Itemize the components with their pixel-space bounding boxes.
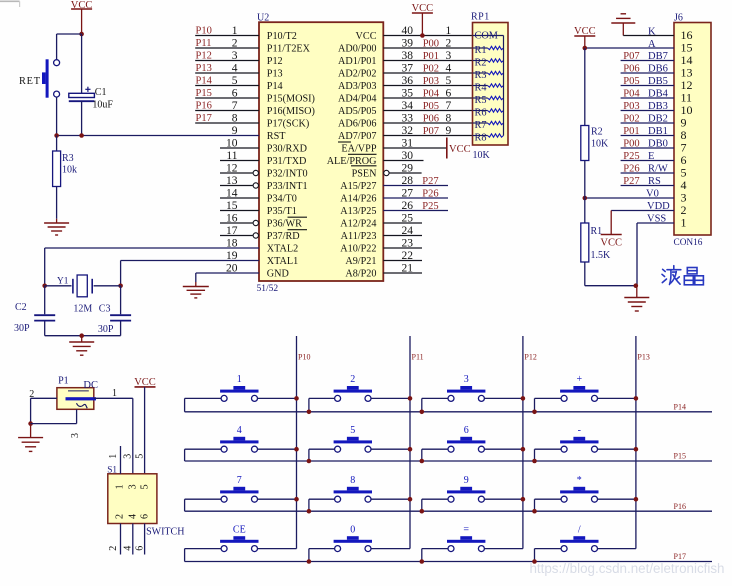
svg-text:RP1: RP1 [471, 12, 490, 23]
svg-text:10uF: 10uF [92, 99, 113, 110]
svg-text:13: 13 [681, 65, 693, 79]
svg-text:SWITCH: SWITCH [146, 526, 184, 537]
svg-text:9: 9 [681, 115, 687, 129]
svg-text:AD0/P00: AD0/P00 [338, 43, 377, 54]
svg-text:4: 4 [237, 425, 242, 436]
svg-text:7: 7 [446, 100, 452, 112]
svg-text:ALE/PROG: ALE/PROG [327, 156, 377, 167]
svg-text:4: 4 [128, 514, 139, 519]
svg-text:P11: P11 [412, 353, 424, 362]
svg-text:1: 1 [681, 215, 687, 229]
svg-text:14: 14 [681, 53, 693, 67]
svg-text:XTAL2: XTAL2 [267, 243, 298, 254]
svg-text:P1: P1 [58, 375, 69, 386]
svg-text:P11/T2EX: P11/T2EX [267, 43, 311, 54]
svg-text:DB7: DB7 [648, 51, 668, 62]
svg-text:P32/INT0: P32/INT0 [267, 168, 308, 179]
svg-text:P25: P25 [422, 201, 438, 212]
svg-text:12M: 12M [73, 303, 92, 314]
svg-text:DC: DC [83, 380, 98, 391]
svg-text:P05: P05 [423, 101, 439, 112]
svg-text:3: 3 [70, 433, 81, 438]
svg-text:1: 1 [237, 374, 242, 385]
svg-text:P14: P14 [267, 81, 283, 92]
svg-text:P27: P27 [623, 176, 639, 187]
svg-text:R7: R7 [475, 120, 487, 131]
svg-text:GND: GND [267, 268, 289, 279]
svg-text:COM: COM [475, 31, 498, 42]
svg-text:A14/P26: A14/P26 [340, 193, 376, 204]
svg-text:10K: 10K [473, 150, 491, 161]
svg-text:P36/WR: P36/WR [267, 218, 302, 229]
svg-text:9: 9 [464, 475, 469, 486]
svg-text:P12: P12 [196, 51, 212, 62]
svg-text:-: - [578, 425, 581, 436]
svg-text:https://blog.csdn.net/eletroni: https://blog.csdn.net/eletronicfish [529, 561, 724, 576]
svg-text:P37/RD: P37/RD [267, 231, 300, 242]
svg-text:P13: P13 [637, 353, 649, 362]
svg-text:AD3/P03: AD3/P03 [338, 81, 377, 92]
svg-text:0: 0 [350, 524, 355, 535]
svg-text:30P: 30P [14, 323, 30, 334]
svg-text:6: 6 [446, 88, 452, 100]
svg-text:RS: RS [648, 176, 661, 187]
svg-text:15: 15 [681, 40, 693, 54]
svg-text:P27: P27 [422, 176, 438, 187]
svg-text:1: 1 [112, 388, 117, 399]
svg-text:4: 4 [446, 63, 452, 75]
svg-text:30P: 30P [98, 324, 114, 335]
svg-text:R2: R2 [591, 126, 603, 137]
svg-text:DB6: DB6 [648, 64, 668, 75]
svg-text:R5: R5 [475, 95, 487, 106]
svg-text:A8/P20: A8/P20 [345, 268, 376, 279]
svg-text:P31/TXD: P31/TXD [267, 156, 307, 167]
svg-text:A11/P23: A11/P23 [341, 231, 377, 242]
svg-text:VCC: VCC [356, 31, 377, 42]
svg-text:P17: P17 [674, 552, 686, 561]
svg-text:AD6/P06: AD6/P06 [338, 118, 377, 129]
svg-text:3: 3 [123, 454, 134, 459]
svg-text:R4: R4 [475, 83, 487, 94]
svg-text:C2: C2 [15, 302, 27, 313]
svg-text:Y1: Y1 [57, 277, 69, 287]
svg-text:DB5: DB5 [648, 76, 668, 87]
svg-text:P10/T2: P10/T2 [267, 31, 297, 42]
svg-text:8: 8 [446, 113, 452, 125]
svg-text:P35/T1: P35/T1 [267, 206, 297, 217]
svg-text:5: 5 [446, 75, 452, 87]
svg-text:P00: P00 [623, 139, 639, 150]
svg-text:R6: R6 [475, 108, 487, 119]
svg-text:J6: J6 [674, 13, 683, 24]
svg-text:CON16: CON16 [674, 238, 703, 248]
svg-text:=: = [463, 524, 469, 535]
svg-text:XTAL1: XTAL1 [267, 256, 298, 267]
svg-text:DB2: DB2 [648, 114, 668, 125]
svg-text:P30/RXD: P30/RXD [267, 143, 307, 154]
svg-text:P07: P07 [423, 126, 439, 137]
svg-text:1: 1 [446, 25, 452, 37]
svg-text:P06: P06 [423, 114, 439, 125]
svg-text:6: 6 [140, 514, 151, 519]
svg-text:P15: P15 [674, 452, 686, 461]
svg-text:A10/P22: A10/P22 [340, 243, 376, 254]
svg-text:VCC: VCC [600, 237, 622, 248]
svg-text:P17: P17 [196, 113, 212, 124]
svg-text:5: 5 [350, 425, 355, 436]
svg-text:8: 8 [681, 128, 687, 142]
svg-text:3: 3 [128, 484, 139, 489]
svg-text:5: 5 [140, 484, 151, 489]
svg-text:R8: R8 [475, 133, 487, 144]
svg-text:P11: P11 [196, 38, 212, 49]
svg-text:/: / [578, 524, 581, 535]
svg-text:DB0: DB0 [648, 139, 668, 150]
svg-text:P10: P10 [298, 353, 310, 362]
svg-text:A12/P24: A12/P24 [340, 218, 376, 229]
svg-text:P12: P12 [267, 56, 283, 67]
svg-text:*: * [577, 475, 582, 486]
svg-text:A15/P27: A15/P27 [340, 181, 376, 192]
svg-text:10: 10 [681, 103, 693, 117]
svg-text:R/W: R/W [648, 164, 668, 175]
svg-text:P04: P04 [423, 89, 440, 100]
svg-text:AD7/P07: AD7/P07 [338, 131, 377, 142]
svg-text:P06: P06 [623, 64, 639, 75]
svg-text:2: 2 [350, 374, 355, 385]
svg-text:C1: C1 [95, 87, 107, 98]
svg-text:DB1: DB1 [648, 126, 668, 137]
svg-text:P02: P02 [623, 114, 639, 125]
svg-text:AD2/P02: AD2/P02 [338, 68, 377, 79]
svg-text:11: 11 [681, 90, 693, 104]
svg-text:51/52: 51/52 [257, 284, 279, 294]
svg-text:C3: C3 [99, 303, 111, 314]
svg-text:A: A [648, 39, 656, 50]
svg-text:P10: P10 [196, 26, 212, 37]
svg-text:P01: P01 [423, 51, 439, 62]
svg-text:P16: P16 [674, 502, 686, 511]
svg-text:2: 2 [115, 514, 126, 519]
svg-text:10k: 10k [62, 165, 77, 176]
svg-text:P14: P14 [196, 76, 213, 87]
svg-text:6: 6 [134, 546, 145, 551]
svg-text:9: 9 [446, 125, 452, 137]
svg-text:7: 7 [237, 475, 242, 486]
svg-text:1.5K: 1.5K [591, 250, 612, 261]
svg-text:VSS: VSS [647, 214, 666, 225]
svg-text:3: 3 [464, 374, 469, 385]
svg-text:P14: P14 [674, 403, 686, 412]
svg-text:4: 4 [123, 546, 134, 551]
svg-text:P13: P13 [196, 63, 212, 74]
svg-text:P25: P25 [623, 151, 639, 162]
svg-text:3: 3 [681, 190, 687, 204]
svg-text:P26: P26 [623, 164, 639, 175]
svg-text:P17(SCK): P17(SCK) [267, 118, 309, 129]
svg-text:P05: P05 [623, 76, 639, 87]
svg-text:DB4: DB4 [648, 89, 669, 100]
svg-text:P15: P15 [196, 88, 212, 99]
svg-text:P13: P13 [267, 68, 283, 79]
svg-text:5: 5 [134, 454, 145, 459]
svg-text:P33/INT1: P33/INT1 [267, 181, 308, 192]
svg-text:P12: P12 [524, 353, 536, 362]
svg-text:S1: S1 [107, 466, 117, 476]
svg-text:R3: R3 [475, 70, 487, 81]
svg-text:+: + [576, 374, 582, 385]
svg-text:P04: P04 [623, 89, 640, 100]
svg-text:12: 12 [681, 78, 693, 92]
svg-text:2: 2 [681, 203, 687, 217]
svg-text:AD5/P05: AD5/P05 [338, 106, 377, 117]
svg-text:R1: R1 [591, 226, 603, 237]
svg-text:P07: P07 [623, 51, 639, 62]
svg-text:PSEN: PSEN [352, 168, 378, 179]
svg-text:AD1/P01: AD1/P01 [338, 56, 377, 67]
svg-text:4: 4 [681, 178, 687, 192]
svg-text:6: 6 [681, 153, 687, 167]
svg-text:R2: R2 [475, 58, 487, 69]
svg-text:P34/T0: P34/T0 [267, 193, 297, 204]
svg-text:P01: P01 [623, 126, 639, 137]
svg-text:V0: V0 [646, 189, 659, 200]
svg-text:16: 16 [681, 28, 693, 42]
svg-text:DB3: DB3 [648, 101, 668, 112]
svg-text:P00: P00 [423, 39, 439, 50]
svg-text:RET: RET [19, 76, 41, 87]
svg-text:6: 6 [464, 425, 469, 436]
svg-text:P16(MISO): P16(MISO) [267, 106, 315, 117]
svg-text:10K: 10K [591, 138, 609, 149]
svg-text:P15(MOSI): P15(MOSI) [267, 93, 315, 104]
svg-text:RST: RST [267, 131, 286, 142]
svg-text:5: 5 [681, 165, 687, 179]
svg-text:1: 1 [108, 454, 119, 459]
svg-text:E: E [648, 151, 654, 162]
svg-text:7: 7 [681, 140, 687, 154]
svg-text:8: 8 [350, 475, 355, 486]
svg-text:EA/VPP: EA/VPP [341, 143, 376, 154]
svg-text:2: 2 [108, 546, 119, 551]
svg-text:R3: R3 [62, 153, 74, 164]
svg-text:3: 3 [446, 50, 452, 62]
svg-text:P03: P03 [623, 101, 639, 112]
svg-text:U2: U2 [257, 13, 269, 24]
svg-text:VCC: VCC [449, 144, 471, 155]
svg-text:2: 2 [446, 38, 452, 50]
svg-text:AD4/P04: AD4/P04 [338, 93, 377, 104]
svg-text:A13/P25: A13/P25 [340, 206, 376, 217]
svg-text:P26: P26 [422, 189, 438, 200]
svg-text:CE: CE [233, 524, 246, 535]
svg-text:1: 1 [115, 484, 126, 489]
svg-text:K: K [648, 26, 656, 37]
svg-text:A9/P21: A9/P21 [345, 256, 376, 267]
svg-text:VDD: VDD [647, 201, 670, 212]
svg-text:R1: R1 [475, 45, 487, 56]
svg-text:P02: P02 [423, 64, 439, 75]
svg-text:P16: P16 [196, 101, 212, 112]
svg-text:P03: P03 [423, 76, 439, 87]
